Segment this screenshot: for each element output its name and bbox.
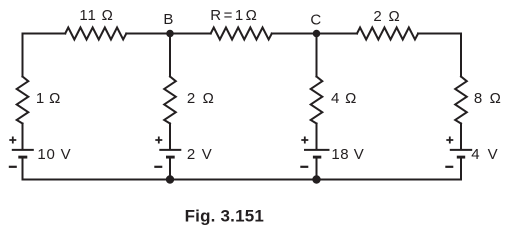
svg-text:18 V: 18 V <box>331 146 364 163</box>
resistor R_2top (2 ohm, horizontal) <box>357 28 418 40</box>
plus sign of V3 <box>301 137 308 144</box>
battery V2 (2 V) short plate <box>166 156 175 159</box>
svg-text:2 V: 2 V <box>187 146 213 163</box>
minus sign of V2 <box>154 166 162 168</box>
battery V1 (10 V) short plate <box>18 156 27 159</box>
wire branch2 battery to bottom rail <box>169 159 171 180</box>
svg-text:11 Ω: 11 Ω <box>79 7 113 24</box>
resistor R (R = 1 ohm, horizontal) <box>211 28 272 40</box>
battery V3 (18 V) short plate <box>313 156 321 159</box>
wire top-left segment (left rail corner to 11-ohm resistor) <box>23 34 66 77</box>
junction dot bottom rail at branch 3 <box>312 175 320 183</box>
svg-text:2 Ω: 2 Ω <box>373 8 401 25</box>
plus sign of V4 <box>446 137 453 144</box>
svg-text:Fig. 3.151: Fig. 3.151 <box>185 207 264 226</box>
battery V2 (2 V) long plate <box>159 149 181 151</box>
svg-text:4 Ω: 4 Ω <box>331 90 357 107</box>
battery V3 (18 V) long plate <box>304 149 330 151</box>
svg-text:1 Ω: 1 Ω <box>36 90 61 107</box>
wire branch3 resistor to battery <box>316 124 318 149</box>
battery V1 (10 V) long plate <box>12 149 34 151</box>
wire bottom rail <box>23 179 462 181</box>
resistor R_8 (8 ohm, vertical, branch 4) <box>455 77 467 124</box>
svg-text:C: C <box>310 11 321 28</box>
wire branch4 battery to bottom rail <box>460 159 462 180</box>
wire R=1-ohm to node C <box>272 33 317 35</box>
svg-text:B: B <box>163 11 173 28</box>
plus sign of V1 <box>9 137 16 144</box>
svg-text:R = 1 Ω: R = 1 Ω <box>210 7 256 24</box>
wire branch1 resistor to battery <box>22 124 24 149</box>
wire node B down to 2-ohm resistor <box>169 34 171 77</box>
resistor R_11 (11 ohm, horizontal) <box>65 28 126 40</box>
wire node C down to 4-ohm resistor <box>316 34 318 77</box>
wire node C to 2-ohm resistor <box>317 33 358 35</box>
resistor R_4 (4 ohm, vertical, branch 3) <box>311 77 323 124</box>
wire branch2 resistor to battery <box>169 124 171 149</box>
wire top-right segment (2-ohm to right rail corner) <box>418 34 461 77</box>
node C junction dot (top) <box>313 30 321 38</box>
resistor R_1 (1 ohm, vertical, branch 1) <box>17 77 29 124</box>
minus sign of V4 <box>445 166 453 168</box>
svg-text:2 Ω: 2 Ω <box>187 90 216 107</box>
resistor R_2 (2 ohm, vertical, branch 2) <box>164 77 176 124</box>
wire branch4 resistor to battery <box>460 124 462 149</box>
wire 11-ohm to node B <box>126 33 170 35</box>
svg-text:8 Ω: 8 Ω <box>474 90 503 107</box>
battery V4 (4 V) short plate <box>457 156 465 159</box>
wire branch1 battery to bottom rail <box>22 159 24 180</box>
junction dot bottom rail at branch 2 <box>166 175 174 183</box>
wire node B to R=1-ohm resistor <box>170 33 211 35</box>
wire branch3 battery to bottom rail <box>316 159 318 180</box>
battery V4 (4 V) long plate <box>450 149 472 151</box>
svg-text:10 V: 10 V <box>37 146 71 163</box>
svg-text:4 V: 4 V <box>471 146 499 163</box>
minus sign of V1 <box>9 166 17 168</box>
plus sign of V2 <box>155 137 162 144</box>
minus sign of V3 <box>300 166 308 168</box>
node B junction dot (top) <box>166 30 174 38</box>
